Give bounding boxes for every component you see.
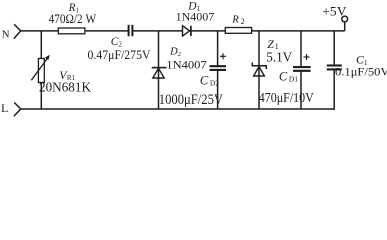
wire CD2 branch — [217, 31, 219, 109]
node +5V label — [322, 3, 347, 18]
wire zener branch — [258, 31, 260, 109]
svg-text:L: L — [1, 101, 8, 115]
wire top rail — [20, 30, 345, 32]
diode D1 cathode bar — [190, 26, 192, 36]
wire +5V riser — [344, 22, 346, 31]
varistor VR1 reference label — [59, 68, 75, 82]
svg-text:20N681K: 20N681K — [39, 81, 91, 96]
resistor R2 body — [225, 28, 251, 34]
varistor VR1 body — [38, 59, 44, 83]
capacitor C1 reference label — [356, 53, 368, 67]
wire bottom rail — [20, 108, 335, 110]
node +5V terminal circle — [342, 16, 348, 22]
svg-text:0.1μF/50V: 0.1μF/50V — [335, 65, 387, 79]
varistor VR1 value label 20N681K — [39, 81, 91, 96]
svg-text:470μF/10V: 470μF/10V — [259, 91, 314, 106]
svg-text:1N4007: 1N4007 — [176, 10, 215, 24]
svg-text:5.1V: 5.1V — [266, 50, 292, 65]
capacitor C1 plates — [327, 66, 342, 70]
diode D2 reference label — [169, 46, 181, 57]
diode D1 reference label — [187, 1, 200, 13]
node N terminal chevron — [14, 24, 21, 38]
capacitor CD2 reference label — [200, 73, 219, 87]
resistor R1 value label 470ohm/2W — [49, 12, 97, 26]
capacitor CD2 plates — [210, 66, 226, 70]
zener Z1 reference label — [267, 37, 278, 51]
node L terminal chevron — [14, 102, 21, 116]
capacitor CD2 polarity plus sign — [220, 53, 226, 59]
varistor VR1 arrow — [31, 55, 50, 80]
resistor R1 body — [58, 28, 85, 34]
zener Z1 value label 5.1V — [266, 50, 292, 65]
svg-text:470Ω/2 W: 470Ω/2 W — [49, 12, 97, 26]
svg-text:+5V: +5V — [322, 3, 347, 18]
zener Z1 cathode bar with bent ends — [252, 62, 266, 69]
diode D2 triangle — [153, 68, 164, 78]
capacitor CD1 plates — [293, 67, 311, 71]
diode D1 value label 1N4007 — [176, 10, 215, 24]
resistor R1 reference label — [68, 2, 79, 15]
node L terminal label — [1, 101, 8, 115]
capacitor C2 value label 0.47uF/275V — [88, 48, 152, 62]
resistor R2 reference label — [231, 14, 244, 26]
wire CD1 branch — [300, 31, 302, 109]
zener Z1 triangle — [254, 67, 265, 77]
node N terminal label — [2, 29, 10, 41]
capacitor CD2 value label 1000uF/25V — [159, 92, 224, 108]
svg-text:1000μF/25V: 1000μF/25V — [159, 92, 224, 108]
wire C1 branch — [333, 31, 335, 110]
capacitor C1 value label 0.1uF/50V — [335, 65, 387, 79]
diode D2 value label 1N4007 — [166, 58, 206, 72]
capacitor CD1 reference label — [279, 70, 298, 84]
svg-text:0.47μF/275V: 0.47μF/275V — [88, 48, 152, 62]
capacitor C2 plates — [129, 25, 133, 37]
svg-text:1N4007: 1N4007 — [166, 58, 206, 72]
capacitor CD1 polarity plus sign — [304, 54, 310, 60]
svg-text:N: N — [2, 29, 10, 41]
diode D1 triangle — [183, 26, 190, 36]
wire D2 branch — [158, 31, 160, 109]
capacitor CD1 value label 470uF/10V — [259, 91, 314, 106]
diode D2 cathode bar — [152, 67, 167, 69]
capacitor C2 reference label — [111, 35, 123, 49]
wire varistor branch — [40, 31, 42, 109]
